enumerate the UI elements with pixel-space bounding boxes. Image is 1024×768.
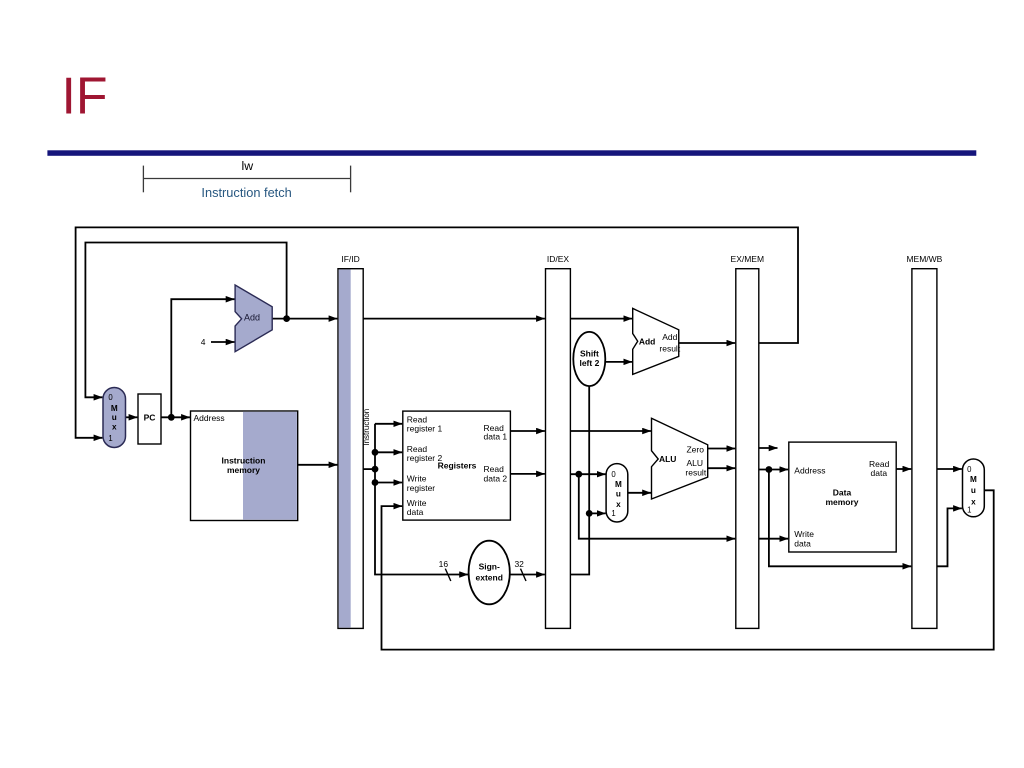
svg-text:Instruction fetch: Instruction fetch <box>201 185 291 200</box>
svg-text:1: 1 <box>108 434 112 443</box>
svg-text:32: 32 <box>514 559 524 569</box>
svg-text:ALU: ALU <box>659 454 676 464</box>
svg-text:Add: Add <box>662 332 677 342</box>
svg-text:MEM/WB: MEM/WB <box>906 254 942 264</box>
svg-text:Registers: Registers <box>438 461 477 471</box>
svg-text:data 2: data 2 <box>484 474 508 484</box>
svg-text:x: x <box>616 500 621 509</box>
svg-text:M: M <box>111 404 118 413</box>
svg-text:data: data <box>871 468 888 478</box>
svg-text:Zero: Zero <box>686 444 704 454</box>
svg-text:Sign-: Sign- <box>479 562 500 572</box>
svg-text:Shift: Shift <box>580 349 599 359</box>
svg-text:Read: Read <box>484 464 505 474</box>
svg-text:lw: lw <box>241 159 253 173</box>
svg-text:x: x <box>112 423 117 432</box>
svg-text:data 1: data 1 <box>484 432 508 442</box>
svg-text:IF/ID: IF/ID <box>341 254 359 264</box>
svg-text:memory: memory <box>825 497 858 507</box>
svg-text:register: register <box>407 483 436 493</box>
svg-text:u: u <box>112 413 117 422</box>
svg-text:Write: Write <box>794 529 814 539</box>
svg-text:Address: Address <box>794 466 825 476</box>
svg-text:4: 4 <box>201 337 206 347</box>
svg-text:0: 0 <box>108 393 113 402</box>
svg-text:M: M <box>970 475 977 484</box>
svg-text:Add: Add <box>639 336 656 346</box>
svg-text:result: result <box>659 344 680 354</box>
svg-text:extend: extend <box>475 573 502 583</box>
svg-text:0: 0 <box>611 470 616 479</box>
svg-text:x: x <box>971 498 976 507</box>
svg-text:Add: Add <box>244 313 260 323</box>
svg-text:0: 0 <box>967 465 972 474</box>
svg-text:16: 16 <box>439 559 449 569</box>
svg-text:IF: IF <box>62 67 108 125</box>
svg-text:u: u <box>971 486 976 495</box>
svg-text:1: 1 <box>967 505 971 514</box>
svg-text:Data: Data <box>833 488 852 498</box>
svg-text:data: data <box>407 507 424 517</box>
svg-text:Instruction: Instruction <box>362 409 371 446</box>
svg-text:data: data <box>794 539 811 549</box>
svg-text:register 1: register 1 <box>407 424 443 434</box>
svg-text:PC: PC <box>144 413 156 423</box>
svg-text:u: u <box>616 490 621 499</box>
svg-text:EX/MEM: EX/MEM <box>731 254 765 264</box>
svg-text:M: M <box>615 480 622 489</box>
svg-text:result: result <box>685 467 706 477</box>
svg-text:ID/EX: ID/EX <box>547 254 570 264</box>
svg-text:1: 1 <box>611 509 615 518</box>
svg-text:Address: Address <box>194 413 225 423</box>
svg-text:left 2: left 2 <box>579 358 599 368</box>
svg-text:memory: memory <box>227 465 260 475</box>
